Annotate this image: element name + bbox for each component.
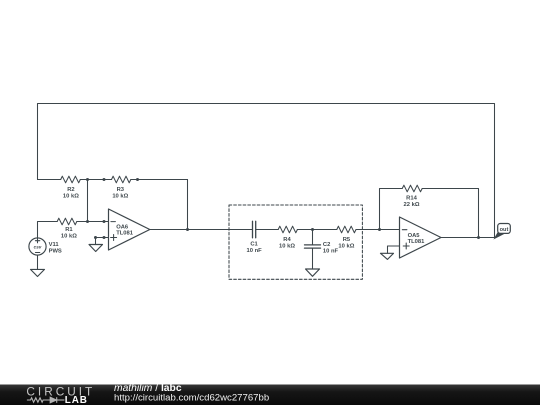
capacitor C1 (252, 221, 254, 238)
resistor R5 (337, 226, 356, 233)
op-amp OA5 (400, 217, 442, 258)
svg-text:C1: C1 (250, 241, 258, 247)
wire R3 leads (104, 179, 111, 181)
op-amp OA6 (109, 209, 150, 250)
node R1-feedback junction (86, 220, 89, 223)
resistor R2 (61, 176, 81, 183)
ground below V11 (31, 269, 45, 276)
ground at OA6 plus (89, 245, 103, 252)
svg-text:10 nF: 10 nF (323, 248, 339, 254)
resistor R4 (278, 226, 297, 233)
dashed box filter section (229, 205, 362, 279)
wire top feedback loop (38, 104, 495, 238)
svg-text:R2: R2 (67, 187, 74, 193)
voltage source V11 (29, 238, 46, 255)
resistor R1 (57, 218, 77, 225)
svg-text:10 kΩ: 10 kΩ (63, 193, 79, 199)
svg-text:R14: R14 (406, 196, 417, 202)
svg-text:10 kΩ: 10 kΩ (279, 244, 295, 250)
svg-text:TL081: TL081 (408, 239, 426, 245)
svg-text:R5: R5 (343, 237, 351, 243)
svg-text:10 nF: 10 nF (247, 248, 263, 254)
schematic text labels (34, 187, 425, 255)
svg-text:10 kΩ: 10 kΩ (112, 193, 128, 199)
node OA6 inverting input terminal (103, 220, 106, 223)
wire R1 to opamp minus (77, 221, 109, 223)
wire R2 to junction (80, 179, 104, 181)
wire OA5 plus to ground (388, 246, 400, 253)
wire V11 to R1 (38, 222, 58, 238)
wire R2 left lead (38, 179, 61, 181)
node OA6 non-inverting input terminal (103, 236, 106, 239)
out flag (495, 224, 511, 239)
ground at OA5 plus (381, 253, 394, 259)
node R3 left terminal (103, 178, 106, 181)
wire C2 to ground (312, 248, 314, 269)
node R14 output junction (477, 236, 480, 239)
wire C1 to R4 (256, 229, 279, 231)
node R2-R3 junction (86, 178, 89, 181)
svg-text:TL081: TL081 (116, 230, 134, 236)
wire OA6 output (150, 229, 253, 231)
resistor R14 (402, 185, 422, 192)
capacitor C2 (312, 230, 314, 245)
svg-text:R1: R1 (65, 227, 73, 233)
svg-text:10 kΩ: 10 kΩ (338, 244, 354, 250)
svg-text:csv: csv (34, 244, 42, 249)
wire R4 to junction to R5 (297, 229, 336, 231)
node R14 input junction (378, 228, 381, 231)
svg-text:22 kΩ: 22 kΩ (404, 202, 420, 208)
svg-text:R3: R3 (117, 187, 125, 193)
resistor R3 (112, 176, 131, 183)
ground below C2 (306, 269, 320, 276)
svg-text:C2: C2 (323, 242, 330, 248)
svg-text:R4: R4 (283, 237, 291, 243)
wire R3 right down to opamp output (187, 180, 189, 230)
svg-text:LAB: LAB (65, 395, 88, 405)
wire R14 right vertical to output (422, 189, 478, 238)
node R3 right terminal (136, 178, 139, 181)
wire R14 feedback left vertical (380, 189, 403, 230)
wire junction vertical R2R3 to R1 (87, 180, 89, 222)
wire R5 to OA5 minus (356, 229, 400, 231)
node OA6 plus ground bend (94, 236, 97, 239)
svg-text:PWS: PWS (49, 249, 62, 255)
wire V11 to ground (37, 255, 39, 269)
svg-text:10 kΩ: 10 kΩ (61, 234, 77, 240)
wire OA6 plus input to ground (96, 238, 109, 245)
node OA6 output junction (186, 228, 189, 231)
wire OA5 output (441, 237, 495, 239)
svg-text:http://circuitlab.com/cd62wc27: http://circuitlab.com/cd62wc27767bb (114, 392, 269, 403)
logo resistor squiggle and diode (27, 397, 65, 403)
svg-text:V11: V11 (49, 242, 60, 248)
node C2 junction (311, 228, 314, 231)
svg-text:out: out (500, 227, 509, 233)
